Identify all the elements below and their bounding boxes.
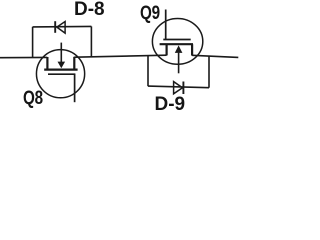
- diode D-8 loop: left vertical wire: [32, 27, 34, 58]
- Q9 substrate lead: [178, 53, 180, 74]
- Q9 source contact bar: [166, 44, 168, 55]
- Q9 gate lead: [165, 10, 167, 40]
- transistor Q8: [36, 43, 84, 103]
- label Q9: [140, 3, 160, 25]
- label D-8: [74, 0, 105, 21]
- label Q8: [23, 88, 43, 110]
- Q8 channel bar: [44, 68, 77, 70]
- Q8 drain contact bar: [73, 57, 75, 70]
- Q9 body circle: [152, 19, 202, 65]
- diode D-9 (triangle points right, cathode bar right): [174, 82, 184, 95]
- diode D-8 loop: right vertical wire: [90, 26, 92, 57]
- wire: left rail into Q8 source: [0, 56, 47, 58]
- Q8 body circle: [36, 50, 84, 98]
- wire: middle rail Q8 drain to Q9 source: [74, 55, 166, 57]
- transistor Q9 (Q8 rotated 180): [152, 10, 202, 74]
- diode D-8 loop: top wire: [33, 25, 92, 28]
- Q8 source contact bar: [46, 57, 48, 70]
- diode D-8 (cathode bar left, triangle points left): [55, 21, 65, 33]
- label D-9: [155, 94, 186, 116]
- wire: right rail from Q9 drain to edge: [192, 55, 238, 57]
- diode D-9 loop: bottom wire: [148, 86, 209, 88]
- Q8 gate lead: [74, 74, 76, 102]
- Q8 substrate arrow (points down to channel): [58, 62, 66, 69]
- diode D-9 loop: right vertical wire: [208, 56, 210, 87]
- Q9 channel bar: [160, 43, 193, 45]
- diode D-9 loop: left vertical wire: [147, 55, 149, 86]
- Q9 gate plate: [163, 39, 190, 41]
- Q8 gate plate: [48, 73, 75, 75]
- Q9 substrate arrow (points up to channel): [175, 45, 183, 53]
- Q9 drain contact bar: [191, 44, 193, 55]
- Q8 substrate lead: [60, 43, 62, 63]
